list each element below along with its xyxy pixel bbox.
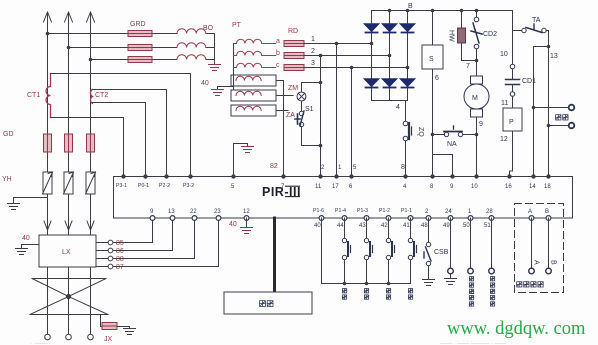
wire terminal 12 to ground [246, 218, 248, 227]
svg-text:ZQ: ZQ [417, 127, 424, 137]
svg-text:TA: TA [532, 17, 541, 24]
wire 43 down [366, 218, 368, 238]
phase line A [47, 16, 49, 134]
wire 88 to terminal 22 [113, 218, 195, 259]
svg-text:P1-4: P1-4 [335, 208, 346, 214]
wire 2 to terminal 11 [320, 56, 322, 177]
dashed box comms [515, 204, 564, 293]
switch CSB [424, 242, 431, 265]
svg-text:RD: RD [288, 28, 298, 35]
svg-text:42: 42 [381, 223, 388, 229]
arrow up phase B [65, 12, 73, 24]
wire S to terminal 8 [432, 69, 434, 176]
lamp ZM [297, 92, 306, 101]
svg-text:M: M [472, 95, 478, 102]
bridge column 3 wire [407, 11, 409, 24]
wire line1 to bridge [304, 43, 372, 45]
svg-text:P: P [509, 119, 514, 126]
svg-text:c: c [276, 62, 280, 69]
pushbutton NA [444, 126, 463, 137]
svg-text:44: 44 [337, 223, 344, 229]
svg-text:41: 41 [403, 223, 410, 229]
label 进线 [556, 115, 561, 120]
wire YH to ground [14, 198, 48, 204]
svg-text:CT1: CT1 [27, 92, 40, 99]
svg-text:40: 40 [229, 221, 237, 228]
svg-text:S1: S1 [305, 106, 314, 113]
PT primary bus [233, 44, 235, 91]
svg-text:40: 40 [22, 235, 30, 242]
svg-text:1: 1 [311, 36, 315, 43]
svg-text:B: B [545, 209, 549, 215]
svg-text:4: 4 [396, 104, 400, 111]
svg-text:10: 10 [471, 184, 478, 190]
label 本安通讯 [517, 282, 522, 287]
wire PT bus to ground [218, 87, 234, 90]
svg-text:6: 6 [349, 184, 353, 190]
svg-text:13: 13 [550, 53, 558, 60]
svg-text:8: 8 [401, 164, 405, 171]
top terminal dots [121, 174, 550, 178]
svg-text:2: 2 [425, 209, 429, 215]
svg-text:P1-6: P1-6 [313, 208, 324, 214]
inductor BO c [177, 55, 206, 60]
inductor BO b [177, 43, 206, 48]
wire P to terminal 16 [512, 131, 514, 171]
bridge bottom rail [372, 100, 408, 102]
ground JX [124, 327, 136, 335]
junction dots phase taps [46, 32, 93, 62]
LX output 86 [96, 250, 108, 252]
box P [503, 108, 522, 131]
svg-text:S: S [429, 56, 434, 63]
fuse GRD a [128, 31, 152, 37]
wire 51 down sensor2 [491, 218, 493, 268]
label button1 [342, 289, 346, 293]
svg-text:6: 6 [435, 75, 439, 82]
wire 85 to terminal 9 [113, 218, 153, 243]
wire to inlet terminal top [534, 107, 570, 109]
arrow down into LX a [44, 221, 51, 230]
top outside wire numbers [321, 165, 357, 171]
ground PT 40 [212, 90, 224, 96]
bridge column 1 wire [371, 11, 373, 24]
svg-text:5: 5 [353, 165, 357, 171]
wire 40 down [321, 218, 323, 284]
ground YH [8, 204, 20, 210]
diode D2 [383, 24, 397, 33]
svg-text:B: B [550, 260, 557, 265]
bottom terminal rings [150, 216, 551, 221]
plug terminal a [45, 334, 51, 340]
svg-text:PT: PT [232, 22, 242, 29]
wire CT1 top to terminal P3-2 [51, 74, 191, 177]
svg-text:43: 43 [359, 223, 366, 229]
wire motor down [476, 117, 478, 176]
box LCD 液晶 [224, 292, 312, 314]
wire A down [531, 218, 533, 268]
box LX [39, 235, 96, 267]
svg-text:50: 50 [463, 223, 470, 229]
bowtie cable symbol [30, 279, 108, 315]
ground PT lower [242, 147, 254, 153]
svg-text:9: 9 [450, 184, 454, 190]
wire to inlet terminal bottom [549, 125, 570, 127]
svg-text:ZM: ZM [288, 85, 298, 92]
svg-text:13: 13 [168, 209, 175, 215]
fuse GD c [87, 134, 95, 152]
svg-text:23: 23 [214, 209, 221, 215]
box S [422, 45, 443, 69]
svg-text:CD2: CD2 [483, 31, 497, 38]
wire branch to terminal 14 [534, 47, 549, 177]
wire rail corner to TA [512, 11, 514, 31]
svg-text:49: 49 [443, 223, 450, 229]
svg-text:12: 12 [243, 209, 250, 215]
wire 50 down sensor1 [470, 218, 472, 268]
arrow down into LX c [87, 221, 94, 230]
svg-text:5: 5 [231, 184, 235, 190]
svg-text:b: b [276, 50, 280, 57]
svg-text:B: B [408, 3, 413, 10]
fuse GD b [65, 134, 73, 152]
bottom terminal names [150, 209, 549, 215]
wire LX to ground [22, 245, 40, 249]
LX box feeder lines down [48, 267, 91, 334]
wire CT1 bottom to terminal P3-1 [51, 118, 124, 177]
svg-text:GRD: GRD [130, 21, 146, 28]
wire 5 to terminal 6 [351, 68, 353, 177]
ground CSB [423, 280, 435, 286]
svg-text:48: 48 [421, 223, 428, 229]
winding PT p1 [234, 39, 276, 43]
svg-text:1: 1 [338, 165, 342, 171]
plug terminal c [88, 334, 94, 340]
diode D5 [383, 79, 397, 88]
fuse HW drop [461, 11, 463, 29]
winding PT p2 [234, 51, 276, 55]
button 2 [364, 238, 372, 259]
faint bottom text remnants [30, 341, 506, 345]
svg-text:28: 28 [486, 209, 493, 215]
svg-text:4: 4 [403, 184, 407, 190]
svg-text:7: 7 [466, 63, 470, 70]
svg-text:88: 88 [116, 256, 124, 263]
wire rail to S [432, 11, 434, 46]
wire TA down to CD1 [512, 31, 514, 65]
plug ZQ [403, 121, 411, 141]
svg-text:NA: NA [447, 141, 457, 148]
fuse GRD b [128, 45, 152, 51]
wire red ground tap [234, 144, 248, 177]
top terminal names [116, 183, 194, 189]
label button3 [386, 289, 390, 293]
wire line2 to bridge [304, 55, 390, 57]
wire CT2 top to terminal P2-2 [93, 90, 167, 177]
arrow down into LX b [65, 221, 72, 230]
ground after BO [209, 62, 221, 71]
svg-text:9: 9 [479, 121, 483, 128]
winding PT s6 framed [231, 105, 276, 116]
svg-text:P1-1: P1-1 [401, 208, 412, 214]
wire HW to node 7 [462, 60, 477, 62]
svg-text:8: 8 [430, 184, 434, 190]
wire CD1 to P [512, 97, 514, 109]
svg-text:LX: LX [62, 249, 71, 256]
arrow up phase A [44, 12, 52, 24]
top rail [372, 10, 513, 12]
svg-text:40: 40 [314, 223, 321, 229]
ground 49 [445, 279, 457, 285]
wire 42 down [388, 218, 390, 238]
thick wire to LCD [273, 218, 276, 292]
diode D4 [365, 79, 379, 88]
wire lamp branch down [302, 101, 321, 146]
wire line3 to bridge [304, 67, 408, 69]
svg-text:CT2: CT2 [95, 92, 108, 99]
diode D1 [365, 24, 379, 33]
wires NA [433, 134, 445, 136]
LX output 87 [96, 266, 108, 268]
svg-text:YH: YH [2, 176, 12, 183]
fuse GD a [44, 134, 52, 152]
wire 49 down [450, 218, 452, 268]
svg-text:HW: HW [448, 30, 455, 42]
wire ZQ to terminal 4 [405, 141, 407, 176]
fuse RD b [284, 53, 304, 59]
svg-text:A: A [533, 260, 540, 265]
terminal inlet top [569, 105, 575, 111]
button common rail [322, 283, 411, 285]
svg-text:16: 16 [505, 184, 512, 190]
svg-text:· ·——: · ·—— [30, 341, 48, 345]
phase line C [90, 16, 92, 134]
svg-text:P3-2: P3-2 [183, 183, 194, 189]
phase line B [68, 16, 70, 134]
svg-text:51: 51 [484, 223, 491, 229]
wire 41 down [410, 218, 412, 238]
button 1 [342, 238, 350, 259]
svg-text:22: 22 [190, 209, 197, 215]
svg-text:87: 87 [116, 264, 124, 271]
svg-text:24: 24 [445, 209, 452, 215]
wire L to terminal 9 [433, 155, 453, 177]
svg-text:ZA: ZA [286, 112, 295, 119]
svg-text:—— · —— ——— · ——: —— · —— ——— · —— [440, 341, 506, 345]
terminal inlet bottom [569, 123, 575, 129]
label button4 [408, 289, 412, 293]
inductor BO a [177, 29, 206, 34]
svg-text:www. dgdqw. com: www. dgdqw. com [447, 319, 586, 339]
winding PT p3 [234, 63, 276, 67]
diode D3 [401, 24, 415, 33]
svg-text:11: 11 [315, 184, 322, 190]
rail junction dots [388, 9, 479, 13]
winding PT s4 framed [231, 75, 276, 86]
arrow up phase C [87, 12, 95, 24]
bridge column 2 wire [389, 11, 391, 24]
switch CD1 [506, 64, 520, 96]
svg-text:18: 18 [544, 184, 551, 190]
arrester YH c [86, 172, 96, 194]
fuse RD a [284, 41, 304, 47]
wire 44 down [344, 218, 346, 238]
ground LX [16, 249, 28, 255]
svg-text:85: 85 [116, 240, 124, 247]
svg-text:P0-1: P0-1 [138, 183, 149, 189]
svg-text:P1-2: P1-2 [379, 208, 390, 214]
plug terminal b [66, 334, 72, 340]
LX output 88 [96, 258, 108, 260]
fuse JX [102, 323, 117, 330]
svg-text:2: 2 [321, 165, 325, 171]
bottom outside wire numbers [314, 223, 491, 229]
button 3 [386, 238, 394, 259]
svg-text:GD: GD [3, 131, 14, 138]
ground terminal 12 [241, 228, 253, 234]
svg-text:2: 2 [311, 48, 315, 55]
switch TA [513, 24, 549, 33]
wire 1 to terminal 17 [336, 44, 338, 177]
wire s5 to lamp branch [276, 95, 293, 97]
wire B down [548, 218, 550, 268]
arrester YH b [64, 172, 74, 194]
svg-text:12: 12 [500, 136, 508, 143]
svg-text:9: 9 [150, 209, 154, 215]
fuse RD c [284, 65, 304, 71]
wire 86 to terminal 13 [113, 218, 173, 251]
wire 48 down [428, 218, 430, 242]
wire lamp top tap [302, 83, 321, 93]
wire bowtie to JX [101, 315, 103, 327]
svg-text:CSB: CSB [434, 249, 449, 256]
svg-text:a: a [276, 38, 280, 45]
wire bridge minus down [406, 101, 408, 122]
svg-text:1: 1 [468, 209, 472, 215]
arrester YH a [43, 172, 53, 194]
wire s6 to ZA branch [276, 110, 288, 112]
svg-text:P2-2: P2-2 [159, 183, 170, 189]
LX output 85 [96, 242, 108, 244]
svg-text:86: 86 [116, 248, 124, 255]
wire s4 to terminal 7 [276, 81, 284, 177]
pushbutton ZA [295, 111, 304, 127]
fuse GRD c [128, 57, 152, 63]
diode D6 [401, 79, 415, 88]
svg-text:P3-1: P3-1 [116, 183, 127, 189]
svg-text:40: 40 [201, 80, 209, 87]
wire CT2 bottom to terminal P0-1 [93, 103, 146, 177]
bridge input dots [370, 42, 410, 70]
svg-text:17: 17 [332, 184, 339, 190]
wire JX to ground [117, 326, 130, 328]
winding PT s5 framed [231, 90, 276, 101]
svg-text:A: A [528, 209, 532, 215]
switch CD2 [476, 11, 478, 18]
wire 87 to terminal 23 [113, 218, 219, 267]
wire taps to GRD filter [48, 34, 215, 63]
svg-text:10: 10 [500, 51, 508, 58]
junction dots lamp branch [319, 81, 323, 148]
svg-text:3: 3 [311, 60, 315, 67]
motor M [464, 61, 489, 118]
node 7 [475, 59, 479, 63]
label button2 [364, 289, 368, 293]
svg-text:14: 14 [529, 184, 536, 190]
svg-text:11: 11 [501, 100, 508, 107]
button 4 [408, 238, 416, 259]
svg-text:P1-3: P1-3 [357, 208, 368, 214]
svg-text:82: 82 [270, 163, 278, 170]
svg-text:JX: JX [104, 336, 113, 343]
